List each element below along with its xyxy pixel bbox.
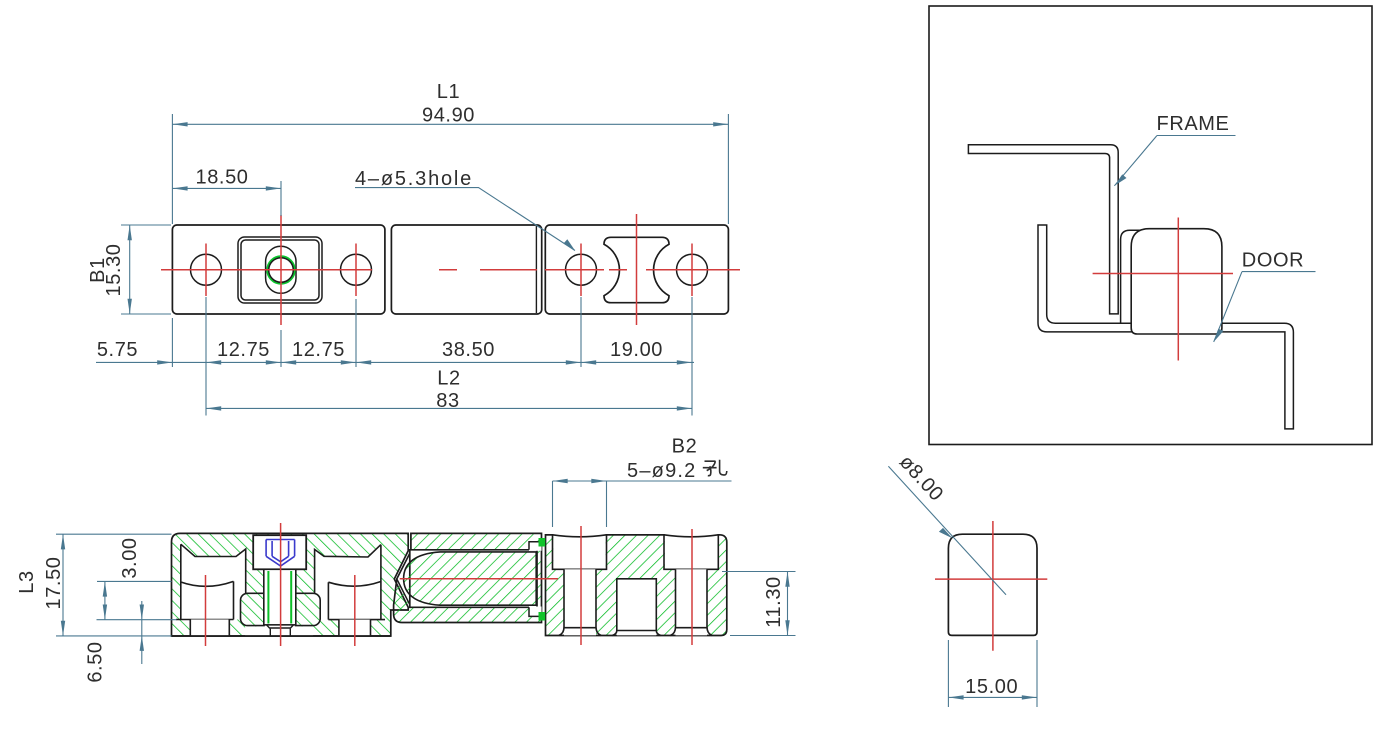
- foot gap 2 white: [339, 620, 371, 636]
- left piece hatched body: [172, 533, 409, 636]
- dimension line L1: [172, 123, 728, 125]
- svg-text:12.75: 12.75: [292, 339, 345, 361]
- 11.30 extension bottom: [730, 635, 796, 637]
- hole 1: [191, 254, 222, 285]
- 3.00 dimension line: [104, 581, 106, 619]
- main horizontal centerline: [161, 269, 740, 271]
- hole 5: [677, 254, 708, 285]
- boss outer rectangle: [238, 237, 322, 303]
- B2 left arrow: [553, 479, 568, 483]
- obround slot: [266, 246, 296, 293]
- green retaining ring: [267, 256, 294, 283]
- cone edges: [397, 551, 411, 607]
- section red centerlines: [206, 523, 693, 646]
- slot end notch top outline: [529, 542, 542, 550]
- DOOR leader arrow: [1214, 329, 1224, 342]
- counterbore 2 hole white: [676, 569, 708, 635]
- diameter leader arrow: [939, 528, 953, 539]
- frame sheet metal: [968, 145, 1118, 314]
- green seal square top: [539, 538, 546, 547]
- diameter leader line: [888, 466, 1006, 595]
- FRAME leader arrow: [1114, 174, 1126, 185]
- screw thread green lines: [268, 571, 291, 624]
- svg-text:83: 83: [436, 390, 459, 412]
- foot gap 1 edges: [190, 620, 229, 637]
- svg-text:3.00: 3.00: [119, 537, 141, 578]
- latch red crosshair horizontal: [1093, 273, 1233, 275]
- 11.30 dimension line: [787, 572, 789, 636]
- 15.00 extension left: [947, 640, 949, 707]
- window white: [617, 579, 657, 636]
- slot end notch bottom white: [529, 607, 542, 617]
- dimension line L2: [206, 407, 692, 409]
- arrow right at hole5: [677, 360, 692, 364]
- section horizontal centerline: [400, 578, 558, 580]
- right piece hatched body: [546, 535, 727, 636]
- L3 extension bottom: [56, 635, 172, 637]
- counterbore 1 outline: [553, 535, 607, 570]
- red vertical hole5 section: [691, 529, 693, 645]
- counterbore 2 outline: [664, 535, 718, 570]
- foot gap 1 white: [190, 620, 229, 637]
- hole 4: [566, 254, 597, 285]
- B1 dimension line: [129, 225, 131, 314]
- svg-text:L2: L2: [437, 368, 460, 390]
- obround inner circle: [269, 258, 294, 283]
- door sheet metal: [1038, 225, 1293, 429]
- middle piece hatched body: [394, 533, 542, 622]
- leader 4-hole underline: [355, 188, 575, 251]
- glyph kong (hole) hand drawn: [703, 460, 727, 476]
- extension line hole3 down: [355, 299, 357, 367]
- arrow left at hole1: [206, 360, 221, 364]
- B2 extension left: [552, 481, 554, 527]
- hole 3 vertical crosshair: [355, 244, 357, 297]
- svg-text:15.30: 15.30: [103, 243, 125, 296]
- shank below tip white: [265, 625, 295, 635]
- top view left piece body: [172, 225, 385, 314]
- extension line body-left down: [171, 318, 173, 367]
- svg-text:94.90: 94.90: [422, 105, 475, 127]
- svg-text:17.50: 17.50: [43, 556, 65, 609]
- 3.00 extension bottom / 6.50 top: [97, 619, 177, 621]
- obround vertical centerline: [280, 215, 282, 325]
- 6.50 dimension line: [141, 601, 143, 664]
- hole 1 vertical crosshair: [205, 244, 207, 297]
- extension line body right edge: [727, 114, 729, 224]
- L3 top arrow: [61, 534, 65, 549]
- L1 left arrow: [172, 122, 187, 126]
- nut pocket outline: [241, 593, 321, 625]
- window outline: [612, 579, 661, 636]
- arrows at obround: [266, 360, 281, 364]
- red center lines, top view: [161, 214, 740, 325]
- green seal square bottom: [539, 612, 546, 621]
- counterbore 2 outer white: [665, 534, 718, 570]
- svg-text:L3: L3: [16, 570, 38, 593]
- screw shank white: [264, 569, 296, 625]
- 15.00 dimension line: [948, 696, 1037, 698]
- B1 extension line bottom: [121, 313, 171, 315]
- top view middle piece body: [391, 225, 541, 314]
- svg-text:B2: B2: [672, 436, 698, 458]
- B1 top arrow: [128, 225, 132, 240]
- shank drill exit lines: [270, 629, 290, 636]
- 6.50 lower outside arrow: [140, 636, 144, 651]
- saddle cutout 2 white: [315, 545, 381, 620]
- B2 right arrow: [591, 479, 606, 483]
- boss inner rectangle: [241, 240, 319, 300]
- extension line body left edge: [171, 114, 173, 224]
- svg-text:19.00: 19.00: [610, 339, 663, 361]
- B2 underline: [553, 480, 732, 482]
- detail red crosshair vertical: [992, 521, 994, 651]
- 18.50 right arrow: [266, 186, 281, 190]
- arrows at hole3: [341, 360, 356, 364]
- L1 right arrow: [713, 122, 728, 126]
- 11.30 bottom arrow: [785, 620, 789, 635]
- counterbore 1 hole white: [564, 569, 596, 635]
- svg-text:11.30: 11.30: [763, 576, 785, 628]
- svg-text:18.50: 18.50: [195, 167, 248, 189]
- white strip under nut pocket: [245, 627, 313, 636]
- saddle cutout 1 white: [181, 544, 246, 619]
- top view dimension texts: [87, 81, 663, 412]
- svg-text:6.50: 6.50: [85, 641, 107, 682]
- slot end notch bottom outline: [529, 607, 542, 616]
- screw shank tip: [264, 625, 296, 628]
- DOOR label underline and leader: [1214, 272, 1316, 342]
- extension line obround top: [280, 181, 282, 216]
- red vertical screw axis: [280, 523, 282, 646]
- slot outline: [410, 550, 537, 608]
- middle piece inner edge line: [535, 226, 537, 313]
- extension line hole1 down: [205, 297, 207, 416]
- dimension line 18.50: [172, 187, 281, 189]
- dimension arrowheads top view: [128, 122, 729, 411]
- L2 right arrow: [677, 406, 692, 410]
- slot white in middle piece: [410, 550, 537, 608]
- installation box border: [929, 6, 1372, 445]
- svg-text:L1: L1: [437, 81, 460, 103]
- 15.00 extension right: [1036, 640, 1038, 707]
- top view right piece body: [545, 225, 728, 314]
- latch profile shape: [948, 534, 1037, 635]
- chain dimension line row: [96, 361, 694, 363]
- red vertical hole3 section: [354, 575, 356, 646]
- L3 extension top: [56, 533, 172, 535]
- leader arrow 5.3hole: [564, 239, 576, 250]
- L3 bottom arrow: [61, 621, 65, 636]
- 18.50 left arrow: [172, 186, 187, 190]
- red vertical hole4 section: [580, 526, 582, 645]
- counterbore 2 hole outline: [670, 569, 712, 635]
- right piece top edge restroke: [546, 535, 721, 537]
- latch red crosshair vertical: [1177, 218, 1179, 361]
- 15.00 right arrow: [1022, 695, 1037, 699]
- extension line obround down: [280, 330, 282, 367]
- red vertical hole1 section: [205, 575, 207, 646]
- L3 dimension line: [62, 534, 64, 636]
- svg-text:5–ø9.2: 5–ø9.2: [627, 460, 696, 482]
- 15.00 left arrow: [948, 695, 963, 699]
- counterbore 1 outer white: [553, 534, 605, 570]
- spool vertical centerline: [636, 214, 638, 325]
- section dimension arrowheads: [61, 479, 790, 651]
- cone clearance white: [397, 551, 411, 607]
- latch behind edge: [1121, 230, 1149, 323]
- saddle 1 outline: [176, 544, 246, 619]
- 6.50 upper outside arrow: [140, 605, 144, 620]
- saddle 2 outline: [315, 545, 385, 620]
- svg-text:15.00: 15.00: [965, 676, 1018, 698]
- svg-text:DOOR: DOOR: [1242, 250, 1304, 272]
- bullet tongue hatched: [404, 552, 537, 605]
- 5.75 outside arrow: [157, 360, 172, 364]
- hole 5 vertical crosshair: [691, 244, 693, 297]
- B2 extension right: [606, 481, 608, 527]
- slot end notch top white: [529, 542, 542, 551]
- svg-text:5.75: 5.75: [97, 339, 138, 361]
- left piece bottom edge restroke: [172, 635, 391, 637]
- detail red crosshair horizontal: [935, 578, 1047, 580]
- 3.00 bottom arrow: [103, 605, 107, 620]
- spool cutout: [604, 237, 669, 302]
- svg-text:38.50: 38.50: [442, 339, 495, 361]
- L2 left arrow: [206, 406, 221, 410]
- svg-text:12.75: 12.75: [217, 339, 270, 361]
- hole 3: [341, 254, 372, 285]
- 11.30 top arrow: [785, 572, 789, 587]
- 3.00 top arrow: [103, 581, 107, 596]
- counterbore 1 hole outline: [559, 569, 601, 635]
- svg-text:4–ø5.3hole: 4–ø5.3hole: [355, 168, 473, 190]
- svg-text:FRAME: FRAME: [1157, 113, 1230, 135]
- B1 bottom arrow: [128, 299, 132, 314]
- latch body: [1131, 229, 1222, 334]
- extension line hole4 down: [580, 297, 582, 367]
- 11.30 extension top: [722, 571, 796, 573]
- arrows at hole4: [566, 360, 581, 364]
- foot gap 2 edges: [339, 620, 371, 636]
- 3.00 extension top: [97, 580, 172, 582]
- hole 4 vertical crosshair: [580, 244, 582, 297]
- screw pocket white: [253, 535, 306, 569]
- FRAME label underline and leader: [1114, 136, 1235, 186]
- screw head blue: [266, 540, 295, 567]
- section dimension texts: [16, 436, 785, 683]
- extension line hole5 down: [691, 297, 693, 416]
- B1 extension line top: [121, 224, 171, 226]
